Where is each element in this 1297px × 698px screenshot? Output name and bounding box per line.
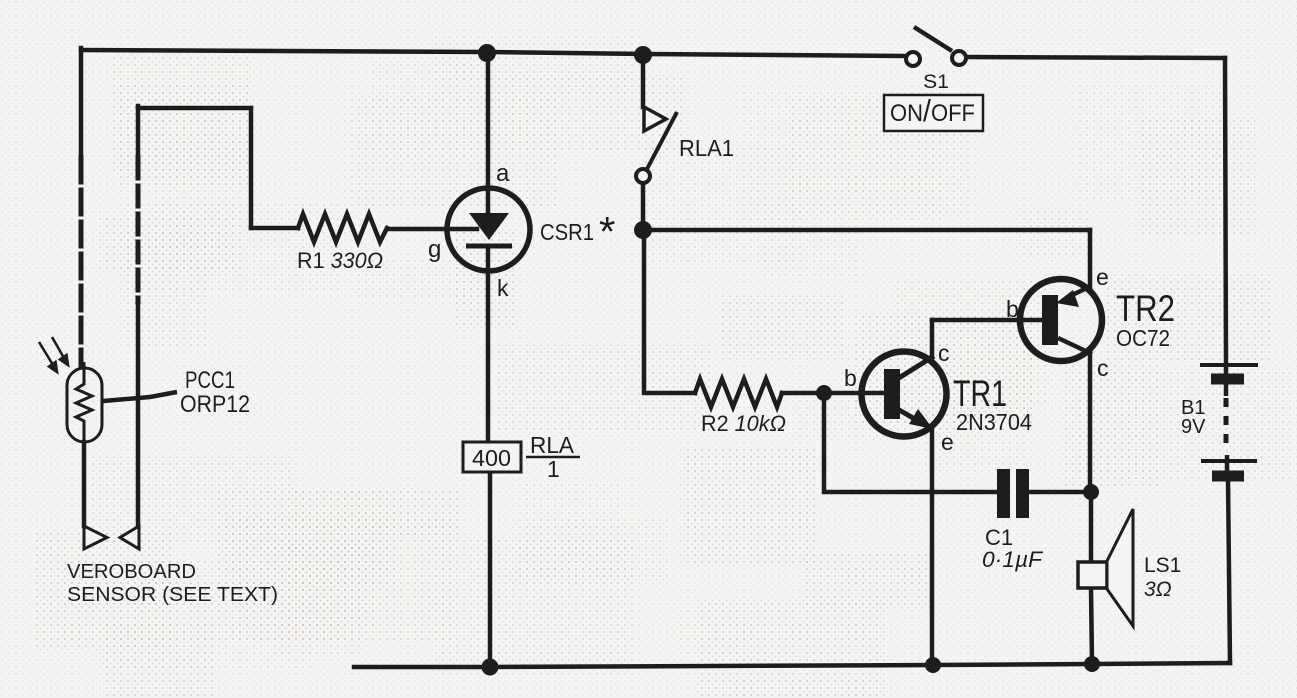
svg-text:R1 330Ω: R1 330Ω [297,248,383,273]
capacitor C1 right plate [1016,469,1029,518]
wire: R1 to CSR1 gate [387,227,477,232]
battery B1 cell1 long plate [1200,363,1258,367]
PCC1 leader line [103,392,177,401]
transistor TR1 base bar [884,369,900,419]
wire: node A down to R2 [644,230,695,393]
wire: battery positive lead from top-right corner [1225,58,1226,364]
wire: R2 to TR1 base [782,391,884,396]
svg-text:LS1: LS1 [1144,554,1181,577]
RLA1 moving contact circle [636,169,650,183]
svg-text:TR1: TR1 [953,373,1007,414]
RLA1 lever [647,112,677,169]
svg-text:9V: 9V [1181,416,1206,438]
wire: node A horizontal to TR2 emitter branch [643,228,1090,233]
fraction bar RLA/1 [526,456,580,459]
svg-text:VEROBOARD: VEROBOARD [67,561,196,583]
wire: TR2 emitter drop [1088,230,1093,289]
wire: CSR1 cathode vertical down to relay coil [486,246,491,442]
wire: RLA1 branch from top rail [641,54,646,107]
wire: TR1 emitter down to bottom rail [930,430,935,665]
loudspeaker LS1 cone [1107,509,1133,626]
svg-text:c: c [938,340,950,366]
svg-text:RLA: RLA [530,432,575,458]
wire: TR1 collector to TR2 base [932,318,1042,323]
ON/OFF box [884,95,983,131]
wire: sensor hook to R1 [251,226,298,231]
wire: left sensor lead dashed section [79,158,84,367]
wire: CSR1 anode vertical [486,52,491,213]
svg-text:k: k [497,275,509,301]
svg-text:g: g [428,236,441,263]
wire: base node drop to C1 [824,393,997,492]
switch S1 lever [914,27,952,51]
veroboard pin arrow left [84,526,107,549]
junction dot TR1 emitter on bottom rail [925,657,941,673]
svg-text:CSR1: CSR1 [540,219,594,245]
switch S1 right contact [952,51,966,65]
svg-text:S1: S1 [923,72,949,93]
svg-text:R2 10kΩ: R2 10kΩ [701,411,786,436]
wire: battery negative lead to bottom rail [1228,479,1230,663]
wire: right sensor lead dashed section [136,158,141,302]
svg-text:e: e [941,429,954,455]
svg-text:a: a [496,160,510,187]
LDR PCC1 envelope [67,368,102,442]
svg-text:*: * [599,208,615,255]
junction dot at RLA1 branch on top rail [634,46,652,64]
svg-text:SENSOR (SEE TEXT): SENSOR (SEE TEXT) [67,584,278,606]
junction dot at TR1 base node [816,385,832,401]
wire: TR2 collector down to node [1088,352,1093,492]
transistor TR2 base bar [1042,295,1058,345]
svg-text:3Ω: 3Ω [1144,578,1172,601]
transistor TR1 circle [862,352,947,437]
transistor TR2 collector stroke [1058,338,1092,354]
wire: node to LS1 [1089,492,1094,562]
battery B1 cell1 short thick plate [1211,374,1244,385]
light arrow 1 [39,342,57,372]
svg-text:400: 400 [472,445,511,471]
wire: left sensor lead solid upper part [79,48,84,156]
wire: sensor hook horizontal top [138,106,251,111]
wire: relay coil to bottom rail [488,472,493,667]
wire: TR1 collector up [930,320,935,358]
LDR PCC1 internal resistor zigzag [76,362,92,445]
svg-text:1: 1 [547,456,560,482]
battery B1 cell2 short thick plate [1212,471,1244,482]
wire: right sensor lead solid upper part [136,106,141,156]
svg-text:c: c [1097,355,1109,381]
capacitor C1 left plate [997,469,1010,518]
RLA1 fixed contact triangle [644,107,666,131]
svg-text:2N3704: 2N3704 [956,409,1032,435]
loudspeaker LS1 magnet box [1078,562,1107,588]
junction dot at CSR1 anode on top rail [478,44,496,62]
veroboard pin arrow right [120,526,139,549]
junction dot C1/TR2 collector/LS1 node [1083,484,1099,500]
wire: sensor hook right vertical [249,108,254,228]
svg-text:ORP12: ORP12 [180,391,250,418]
svg-text:TR2: TR2 [1116,288,1175,329]
transistor TR1 emitter stroke with arrow [894,407,933,429]
transistor TR2 emitter stroke with arrow into bar [1056,286,1091,307]
wire: top rail from left corner to S1 left contact [81,50,906,56]
wire: right sensor lead lower solid part [136,302,141,526]
battery B1 cell2 long plate [1201,459,1257,463]
junction dot relay coil on bottom rail [482,659,499,676]
transistor TR1 collector stroke [894,356,934,381]
svg-text:RLA1: RLA1 [679,135,734,161]
wire: RLA1 moving contact to node A [641,183,646,230]
battery B1 dashed link [1224,398,1229,452]
wire: LS1 to bottom rail [1091,588,1092,664]
wire: bottom rail [354,663,1230,667]
resistor R2 zigzag [695,379,782,407]
svg-text:e: e [1096,264,1109,290]
thyristor CSR1 cathode bar [466,244,512,249]
junction dot LS1 on bottom rail [1084,656,1100,672]
relay coil RLA box [463,442,521,472]
thyristor CSR1 circle [447,188,530,271]
wire: top rail from S1 right contact to top-right corner [965,57,1225,58]
resistor R1 zigzag [298,214,387,242]
transistor TR2 circle [1020,279,1102,361]
wire: left sensor lead below LDR [82,442,87,526]
svg-text:PCC1: PCC1 [185,367,235,394]
wire: C1 to collector node [1029,490,1091,495]
svg-text:OC72: OC72 [1116,325,1170,351]
svg-text:b: b [1006,296,1019,322]
switch S1 left contact [906,52,920,66]
junction node A dot [634,221,652,239]
svg-text:0·1µF: 0·1µF [982,547,1044,572]
light arrow 2 [52,337,68,365]
thyristor CSR1 triangle [469,213,509,240]
svg-text:b: b [844,365,857,391]
